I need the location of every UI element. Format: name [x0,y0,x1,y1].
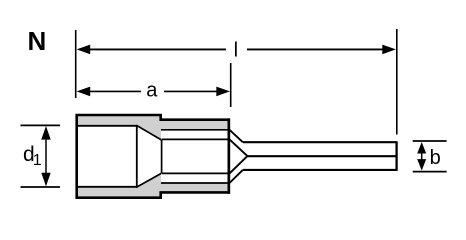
svg-text:N: N [28,26,47,56]
extension line left (for l and a) [75,30,77,98]
label l [234,40,238,62]
wire entry bore (white) [78,125,162,188]
cone transition to pin [230,130,248,183]
label b [430,147,441,169]
dimension b arrows [417,142,426,171]
label a [146,79,158,101]
insulation sleeve outer body [77,115,229,198]
svg-text:a: a [146,79,158,101]
pin [243,141,397,171]
funnel taper lines [136,125,161,187]
sleeve end edge [228,118,231,193]
dimension b extension lines [413,141,447,172]
dimension d1 extension lines [21,125,61,187]
label d1 [23,143,42,169]
extension line right (for l) [396,29,398,135]
label N [28,26,47,56]
metal barrel under insulation [161,130,229,183]
svg-text:l: l [234,40,238,62]
dimension line l [77,45,396,55]
dimension line a [77,87,230,97]
svg-text:b: b [430,147,441,169]
svg-text:1: 1 [33,152,42,169]
extension line right (for a) [230,63,232,107]
dimension d1 arrows [41,126,50,186]
